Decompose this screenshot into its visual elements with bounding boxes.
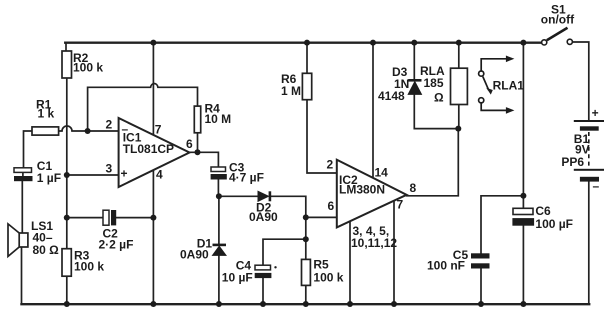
svg-text:100 k: 100 k	[313, 271, 343, 285]
op-amp U1 IC1 TL081CP	[106, 118, 194, 188]
node bottom rail C5	[478, 301, 484, 307]
node top rail RLA	[456, 40, 462, 46]
node C4 junction	[303, 236, 309, 242]
wire D2 node to D2	[219, 195, 258, 197]
wire IC2 pin7 to rail	[393, 200, 395, 304]
svg-text:–: –	[593, 179, 600, 193]
svg-text:100 nF: 100 nF	[427, 259, 465, 273]
wire pin3 line	[67, 174, 119, 176]
svg-text:7: 7	[397, 198, 404, 212]
resistor R3	[62, 249, 104, 277]
wire top rail	[65, 43, 67, 51]
resistor R6	[281, 72, 312, 100]
svg-text:185: 185	[424, 76, 444, 90]
battery B1	[561, 106, 604, 193]
svg-text:LM380N: LM380N	[339, 183, 385, 197]
svg-text:1 µF: 1 µF	[37, 171, 61, 185]
svg-text:2: 2	[106, 118, 113, 132]
node C2 left junction	[64, 215, 70, 221]
svg-text:6: 6	[328, 199, 335, 213]
capacitor C5	[427, 248, 490, 273]
wire D2 out to pin6 IC2	[271, 196, 337, 217]
svg-text:Ω: Ω	[434, 91, 444, 105]
capacitor C2	[99, 210, 134, 252]
node bottom rail C6	[520, 301, 526, 307]
svg-text:2·2 µF: 2·2 µF	[99, 238, 134, 252]
node bottom rail IC2 pins	[347, 301, 353, 307]
wire R2 column through R3 to bottom rail	[66, 78, 68, 304]
svg-text:14: 14	[375, 166, 389, 180]
svg-text:8: 8	[410, 181, 417, 195]
svg-text:R5: R5	[313, 258, 329, 272]
node top rail C6	[520, 40, 526, 46]
svg-text:C6: C6	[535, 204, 551, 218]
svg-text:7: 7	[155, 123, 162, 137]
svg-text:6: 6	[186, 137, 193, 151]
resistor R2	[62, 51, 103, 78]
svg-text:3: 3	[106, 162, 113, 176]
node top rail pin14	[370, 40, 376, 46]
svg-text:2: 2	[327, 158, 334, 172]
capacitor C1	[14, 159, 61, 185]
wire battery bottom to rail	[588, 182, 590, 305]
wire C5 branch from C6 node	[481, 196, 523, 254]
wire R5 column	[305, 217, 307, 304]
op-amp U2 IC2 LM380N	[327, 158, 417, 250]
node pin3 junction	[64, 172, 70, 178]
node bottom rail D1	[216, 301, 222, 307]
wire C2 right lead	[116, 217, 153, 219]
svg-text:+: +	[121, 167, 128, 181]
svg-text:10,11,12: 10,11,12	[351, 236, 397, 250]
resistor R4	[194, 102, 231, 133]
svg-text:4148: 4148	[378, 89, 405, 103]
svg-text:1 M: 1 M	[281, 84, 301, 98]
wire IC2 pin8 output up to relay node	[407, 129, 459, 196]
wire C2 left lead	[67, 217, 103, 219]
loudspeaker LS1	[8, 219, 59, 257]
node top rail D3	[411, 40, 417, 46]
svg-text:+: +	[592, 106, 599, 120]
node bottom rail R3	[64, 301, 70, 307]
svg-text:RLA1: RLA1	[493, 79, 525, 93]
wire R4 bottom to pin6 node	[197, 133, 199, 153]
wire IC1 pin4 to bottom rail	[152, 169, 154, 304]
resistor R1	[32, 98, 59, 136]
svg-text:TL081CP: TL081CP	[123, 142, 174, 156]
wire C4 branch	[263, 239, 306, 265]
wire C3 bottom to D2 node	[217, 180, 219, 197]
wire IC2 pin14 to top rail	[372, 43, 374, 177]
svg-text:100 k: 100 k	[73, 61, 103, 75]
wire switch to battery top	[572, 42, 589, 120]
svg-text:0A90: 0A90	[249, 210, 278, 224]
svg-text:0A90: 0A90	[180, 248, 209, 262]
wire D3 top to rail	[413, 43, 415, 79]
svg-text:PP6: PP6	[561, 155, 584, 169]
svg-text:100 µF: 100 µF	[535, 217, 573, 231]
wire D3 bottom to relay node	[414, 94, 458, 128]
node C5/C6 junction	[520, 193, 526, 199]
svg-text:10 M: 10 M	[205, 112, 232, 126]
diode D2	[249, 191, 278, 224]
wire C5 bottom to rail	[480, 269, 482, 305]
wire R6 top	[306, 43, 308, 74]
node top rail R6	[304, 40, 310, 46]
wire pin2 node up to feedback line with hop over pin7 column	[88, 84, 198, 131]
diode D1	[180, 237, 226, 262]
capacitor C4	[222, 259, 277, 285]
wire RLA coil leads	[458, 43, 460, 129]
node bottom rail pin4	[150, 301, 156, 307]
wire C1 top lead	[22, 173, 24, 177]
wire C4 bottom to rail	[262, 278, 264, 304]
node C3/D2/D1 junction	[216, 193, 222, 199]
capacitor C6	[512, 204, 573, 231]
node bottom rail C4	[260, 301, 266, 307]
diode D3	[378, 65, 422, 103]
wire R1 right lead with hop over R2 column	[59, 126, 119, 131]
node IC2 pin6 junction	[303, 214, 309, 220]
node D3/RLA junction	[455, 126, 461, 132]
wire C6 column	[522, 43, 524, 304]
relay coil RLA	[420, 64, 467, 105]
wire R6 bottom to IC2 pin2	[307, 100, 337, 173]
node C2 right junction	[150, 215, 156, 221]
wire pin6 IC1 to C3	[190, 152, 219, 167]
capacitor C3	[211, 161, 264, 185]
svg-text:4·7 µF: 4·7 µF	[229, 171, 264, 185]
svg-text:80 Ω: 80 Ω	[33, 243, 60, 257]
switch S1	[541, 3, 575, 46]
node bottom rail R5	[303, 301, 309, 307]
relay contact RLA1	[479, 56, 515, 114]
svg-text:100 k: 100 k	[74, 260, 104, 274]
wire LS1 column	[21, 181, 24, 304]
node bottom rail IC2 pin7	[391, 301, 397, 307]
svg-text:on/off: on/off	[541, 13, 575, 27]
svg-text:10 µF: 10 µF	[222, 271, 253, 285]
resistor R5	[302, 258, 344, 286]
wire IC2 pins 3,4,5,10,11,12 to rail	[349, 221, 351, 304]
wire D1 column	[218, 196, 220, 304]
node top rail pin7	[150, 40, 156, 46]
wire R1 left lead to C1	[24, 131, 33, 168]
node pin2 junction	[85, 128, 91, 134]
wire bottom rail	[22, 303, 590, 305]
svg-text:4: 4	[156, 168, 163, 182]
wire IC1 pin7 to top rail	[152, 43, 154, 134]
svg-text:1 k: 1 k	[38, 107, 55, 121]
node IC1 pin6 junction	[195, 149, 201, 155]
